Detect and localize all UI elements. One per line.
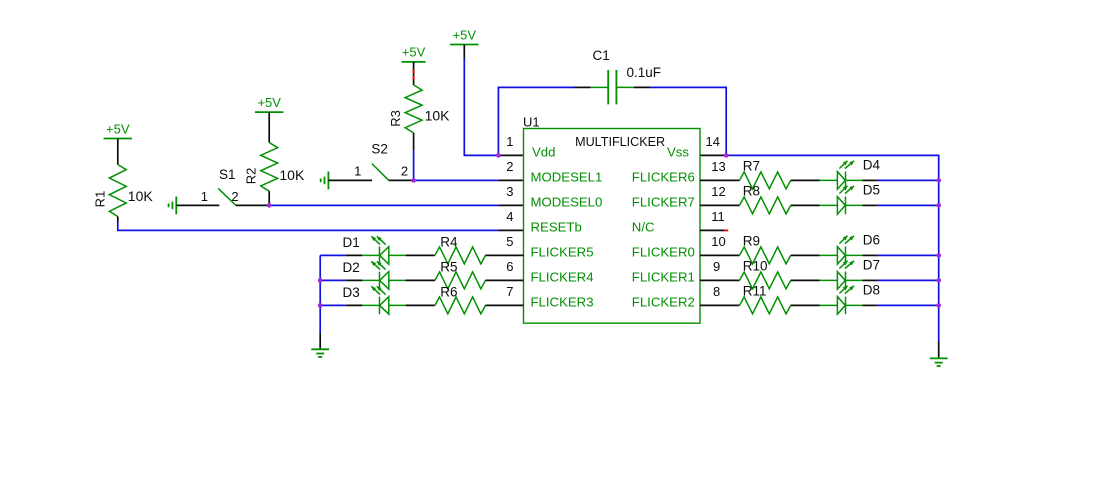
wire pin 12 to R8 <box>700 204 740 206</box>
wire C1 right riser <box>650 87 726 155</box>
wire D5 to right rail <box>878 204 939 206</box>
resistor R8 <box>740 197 791 214</box>
wire D1 anode lead <box>346 254 362 256</box>
power +5V rail for R3 <box>402 45 426 62</box>
svg-text:N/C: N/C <box>632 220 655 235</box>
wire S2 pin 1 <box>328 179 372 181</box>
wire pin 13 to R7 <box>700 179 740 181</box>
svg-text:D3: D3 <box>343 285 360 300</box>
junction Vss node <box>724 153 729 158</box>
junction right rail row D7 <box>936 278 941 283</box>
svg-text:D8: D8 <box>863 282 880 297</box>
LED D3 <box>362 286 406 314</box>
switch S1 blade <box>218 188 235 205</box>
wire R5 to pin 6 <box>486 279 524 281</box>
junction left rail row D2 <box>318 278 323 283</box>
power +5V rail for R1 <box>104 121 132 138</box>
ERC marker red dashes on R3 lead <box>413 70 415 74</box>
switch S2 blade <box>372 164 389 181</box>
svg-text:+5V: +5V <box>402 45 426 60</box>
svg-text:6: 6 <box>506 259 513 274</box>
capacitor C1 <box>590 70 633 104</box>
wire D6 cathode lead <box>862 254 877 256</box>
svg-text:8: 8 <box>713 284 720 299</box>
svg-text:FLICKER6: FLICKER6 <box>632 170 695 185</box>
wire pin 8 to R11 <box>700 304 740 306</box>
junction left rail row D3 <box>318 303 323 308</box>
svg-text:10K: 10K <box>425 107 451 123</box>
svg-text:+5V: +5V <box>257 95 281 110</box>
resistor R7 <box>740 172 791 189</box>
junction S1/R2/MODESEL0 <box>267 203 272 208</box>
wire D6 to right rail <box>878 254 939 256</box>
wire R3 top lead <box>413 62 415 85</box>
svg-text:Vdd: Vdd <box>532 145 555 160</box>
svg-text:10K: 10K <box>279 167 305 183</box>
resistor R5 <box>435 272 486 289</box>
wire S2 pin 2 <box>389 179 414 181</box>
wire R4 to pin 5 <box>486 254 524 256</box>
svg-text:2: 2 <box>401 164 408 179</box>
LED D1 <box>362 236 406 264</box>
svg-text:R10: R10 <box>743 259 768 274</box>
LED D8 <box>820 286 863 314</box>
svg-text:5: 5 <box>506 234 513 249</box>
svg-text:9: 9 <box>713 259 720 274</box>
svg-text:FLICKER7: FLICKER7 <box>632 195 695 210</box>
wire S1 pin 2 <box>236 204 270 206</box>
wire D8 to right rail <box>878 304 939 306</box>
pin 1 stub <box>498 154 523 156</box>
svg-text:C1: C1 <box>593 48 610 63</box>
svg-text:S2: S2 <box>371 142 388 157</box>
wire R3 bottom lead blue <box>413 150 415 181</box>
wire R3 bottom lead black <box>413 133 415 150</box>
svg-text:+5V: +5V <box>106 121 130 136</box>
wire C1 right black segment <box>634 86 651 88</box>
svg-text:FLICKER0: FLICKER0 <box>632 245 695 260</box>
svg-text:+5V: +5V <box>453 27 477 42</box>
svg-text:R3: R3 <box>388 110 403 127</box>
junction S2/R3/MODESEL1 <box>411 178 416 183</box>
svg-text:R2: R2 <box>244 168 259 185</box>
wire net RESETb to pin 4 <box>118 222 499 231</box>
wire R2 bottom lead <box>268 191 270 205</box>
svg-text:R6: R6 <box>440 284 457 299</box>
wire R10 to D7 <box>791 279 820 281</box>
junction right rail row D4 <box>936 178 941 183</box>
wire net MODESEL1 to pin 2 <box>414 179 499 181</box>
svg-text:FLICKER3: FLICKER3 <box>531 295 594 310</box>
wire D5 cathode lead <box>862 204 877 206</box>
svg-text:3: 3 <box>506 184 513 199</box>
svg-text:10K: 10K <box>128 188 154 204</box>
resistor R11 <box>740 297 791 314</box>
wire pin 9 to R10 <box>700 279 740 281</box>
wire D4 to right rail <box>878 179 939 181</box>
pin 3 stub <box>498 204 523 206</box>
no-connect red mark on pin 11 <box>724 229 728 231</box>
resistor R6 <box>435 297 486 314</box>
wire D3 anode lead <box>346 304 362 306</box>
svg-text:D6: D6 <box>863 232 880 247</box>
wire D2 blue segment <box>320 279 346 281</box>
svg-text:13: 13 <box>711 159 725 174</box>
wire D3 to R6 <box>406 304 435 306</box>
LED D4 <box>820 161 863 189</box>
wire C1 left black segment <box>575 86 591 88</box>
svg-text:R5: R5 <box>440 259 457 274</box>
pin 4 stub <box>498 229 523 231</box>
power +5V rail for R2 <box>255 95 283 112</box>
svg-text:D7: D7 <box>863 257 880 272</box>
wire D2 anode lead <box>346 279 362 281</box>
wire D4 cathode lead <box>862 179 877 181</box>
wire D7 to right rail <box>878 279 939 281</box>
svg-text:RESETb: RESETb <box>531 220 582 235</box>
wire D7 cathode lead <box>862 279 877 281</box>
junction right rail row D6 <box>936 253 941 258</box>
resistor R1 <box>109 165 126 217</box>
wire R1 top lead <box>117 139 119 165</box>
svg-text:Vss: Vss <box>667 145 689 160</box>
svg-text:R7: R7 <box>743 159 760 174</box>
wire R7 to D4 <box>791 179 820 181</box>
wire net Vdd vertical <box>464 59 498 155</box>
svg-text:MULTIFLICKER: MULTIFLICKER <box>575 135 665 149</box>
wire +5V stub black <box>463 45 465 60</box>
resistor R9 <box>740 247 791 264</box>
junction right rail row D5 <box>936 203 941 208</box>
svg-text:1: 1 <box>201 189 208 204</box>
svg-text:R1: R1 <box>92 191 107 208</box>
resistor R4 <box>435 247 486 264</box>
svg-text:11: 11 <box>711 209 725 224</box>
svg-text:R9: R9 <box>743 234 760 249</box>
svg-text:U1: U1 <box>523 115 540 130</box>
svg-text:1: 1 <box>354 164 361 179</box>
wire R6 to pin 7 <box>486 304 524 306</box>
wire D2 to R5 <box>406 279 435 281</box>
svg-text:D4: D4 <box>863 157 881 172</box>
svg-text:0.1uF: 0.1uF <box>627 65 662 80</box>
wire R11 to D8 <box>791 304 820 306</box>
svg-text:R4: R4 <box>440 234 458 249</box>
wire R2 top lead <box>268 112 270 142</box>
wire C1 left riser <box>498 87 574 155</box>
wire R1 bottom lead <box>117 217 119 223</box>
LED D2 <box>362 261 406 289</box>
svg-text:MODESEL0: MODESEL0 <box>531 195 603 210</box>
LED D6 <box>820 236 863 264</box>
wire right rail to ground <box>938 342 940 359</box>
junction right rail row D8 <box>936 303 941 308</box>
svg-text:2: 2 <box>231 189 238 204</box>
svg-text:7: 7 <box>506 284 513 299</box>
svg-text:R8: R8 <box>743 184 760 199</box>
svg-text:S1: S1 <box>219 167 236 182</box>
ground (S2 pin 1) <box>321 172 329 190</box>
wire left LED rail <box>319 255 321 333</box>
svg-text:MODESEL1: MODESEL1 <box>531 170 603 185</box>
op-amp U1 body (MULTIFLICKER IC) <box>524 129 701 324</box>
ground (S1 pin 1) <box>169 197 177 215</box>
svg-text:R11: R11 <box>743 284 767 299</box>
wire net Vss top rail <box>726 155 939 341</box>
wire R8 to D5 <box>791 204 820 206</box>
svg-text:1: 1 <box>506 134 513 149</box>
svg-text:D2: D2 <box>343 260 360 275</box>
LED D7 <box>820 261 863 289</box>
power +5V rail for Vdd <box>450 27 478 44</box>
resistor R3 <box>405 85 422 133</box>
svg-text:FLICKER4: FLICKER4 <box>531 270 594 285</box>
svg-text:14: 14 <box>706 134 720 149</box>
resistor R10 <box>740 272 791 289</box>
wire pin 10 to R9 <box>700 254 740 256</box>
svg-text:D1: D1 <box>343 235 360 250</box>
svg-text:4: 4 <box>506 209 513 224</box>
ground (right LED bank) <box>930 358 948 366</box>
pin 14 stub <box>700 154 726 156</box>
svg-text:FLICKER5: FLICKER5 <box>531 245 594 260</box>
wire D8 cathode lead <box>862 304 877 306</box>
svg-text:2: 2 <box>506 159 513 174</box>
wire D3 blue segment <box>320 304 346 306</box>
wire D1 to R4 <box>406 254 435 256</box>
svg-text:12: 12 <box>711 184 725 199</box>
resistor R2 <box>261 143 278 192</box>
svg-text:FLICKER1: FLICKER1 <box>632 270 695 285</box>
wire D1 blue segment <box>320 254 346 256</box>
wire R9 to D6 <box>791 254 820 256</box>
wire S1 pin 1 <box>176 204 219 206</box>
LED D5 <box>820 186 863 214</box>
wire net MODESEL0 to pin 3 <box>269 204 498 206</box>
svg-text:FLICKER2: FLICKER2 <box>632 295 695 310</box>
ground (left LED bank) <box>311 349 329 357</box>
svg-text:D5: D5 <box>863 182 880 197</box>
wire left rail to ground <box>319 333 321 349</box>
junction Vdd node <box>496 153 501 158</box>
pin 2 stub <box>498 179 523 181</box>
svg-text:10: 10 <box>711 234 725 249</box>
pin 11 stub <box>700 229 724 231</box>
